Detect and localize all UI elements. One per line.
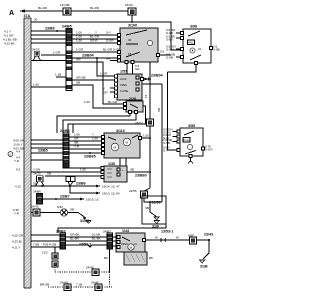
svg-text:BK: BK [104, 256, 108, 260]
svg-text:23/B60: 23/B60 [135, 174, 147, 178]
svg-text:23/B04: 23/B04 [82, 54, 94, 58]
svg-text:19/15, 15: 19/15, 15 [86, 198, 99, 202]
wire W from 1/44 to fuse 4/5F [146, 239, 190, 241]
wire 2/28 pin 2 to 24/B8 [63, 114, 136, 134]
wire branch to 3/100 pin 30 [158, 54, 171, 56]
svg-text:24/55: 24/55 [129, 189, 137, 193]
switch 2/28 [124, 97, 144, 114]
connector pair inline on W wire [161, 238, 166, 242]
wire BL-GN to 3/100 pin [72, 38, 120, 40]
svg-text:31/F: 31/F [152, 225, 160, 229]
wire W to node 23/43 [197, 239, 210, 241]
svg-text:BL-GR: BL-GR [103, 48, 113, 52]
wire 4.11 Y-SB row [31, 246, 60, 248]
wire 9.2 Y-GN to 1/35 [31, 171, 101, 173]
svg-text:15: 15 [128, 52, 132, 56]
svg-text:19/14, 15, 47: 19/14, 15, 47 [102, 185, 120, 189]
wire to 3/110 pin 1 [69, 136, 101, 138]
svg-text:23/B04: 23/B04 [151, 74, 163, 78]
wire branch row to 19/13 [70, 186, 100, 193]
svg-text:SB: SB [76, 81, 80, 85]
svg-text:S-BK: S-BK [166, 37, 173, 41]
wire 1/57 to SB vertical [142, 83, 162, 85]
svg-text:14/10B: 14/10B [60, 3, 70, 7]
svg-text:7.1B: 7.1B [76, 283, 82, 287]
svg-text:13/53-2: 13/53-2 [79, 243, 91, 247]
connector column 24/B8 [60, 129, 70, 168]
wire 4.12 BK row [31, 42, 66, 44]
svg-text:SB: SB [70, 208, 74, 212]
svg-text:15: 15 [144, 94, 148, 98]
wire bar to drop [31, 246, 55, 248]
wire 1.06 bottom row to 24/B5 [31, 86, 66, 88]
svg-text:Y-R: Y-R [14, 159, 20, 163]
svg-text:CLOSE: CLOSE [120, 90, 129, 93]
wire 4.03 SB row [31, 147, 63, 149]
svg-text:1.06: 1.06 [92, 137, 98, 141]
wire 4.1 Y row / node 23/B9 [31, 30, 66, 32]
svg-text:4.12: 4.12 [15, 185, 21, 189]
svg-text:+: + [122, 168, 124, 172]
wire node 23/B04 with branch to 1/57 [72, 58, 150, 79]
wire 4.25 GR-BK row [31, 234, 60, 236]
svg-text:1.05: 1.05 [143, 134, 149, 138]
node C section marker [8, 152, 13, 157]
svg-text:W: W [155, 236, 158, 240]
wire dashed BR-SB row with fuse 24/4G [48, 286, 64, 288]
wire 5.06 Y row [31, 143, 63, 145]
svg-text:1.06: 1.06 [33, 83, 39, 87]
wire 3/100 bottom pins to 1/57 [127, 64, 133, 75]
wire Y to 3/100 pin [72, 34, 120, 36]
wire stub GR to 1/57 [110, 91, 115, 93]
svg-text:3/55: 3/55 [188, 124, 195, 128]
svg-text:30: 30 [128, 38, 132, 42]
wire GR-W to 2/28 lower pin [72, 85, 123, 108]
wire dashed row 7.1B [71, 286, 95, 288]
connector 24/52 inline [147, 119, 154, 126]
svg-text:23/B7: 23/B7 [60, 195, 70, 199]
svg-text:24/B5: 24/B5 [62, 25, 72, 29]
svg-text:1/35: 1/35 [108, 162, 115, 166]
diode D1 output wire of 1/57 [144, 78, 151, 80]
svg-text:1/57: 1/57 [120, 70, 127, 74]
svg-text:23/B5: 23/B5 [38, 149, 48, 153]
svg-text:SB: SB [47, 172, 51, 176]
wire dashed drop to row 24/4E [54, 267, 56, 272]
harness bar 37A [24, 14, 32, 288]
svg-text:19/13, 15, 54: 19/13, 15, 54 [102, 192, 120, 196]
svg-text:S-GN: S-GN [166, 47, 174, 51]
wire SB from pump 6/32 [68, 212, 78, 214]
wire BL-GR to 3/100 pin [72, 51, 120, 53]
svg-text:31/55: 31/55 [152, 201, 161, 205]
wire to 3/110 pin 4 [69, 148, 101, 150]
wire 2/28 right pin to 24/B8 [68, 106, 146, 133]
svg-text:S-GN: S-GN [205, 148, 213, 152]
svg-text:SB: SB [145, 206, 149, 210]
svg-text:31/B: 31/B [200, 265, 208, 269]
svg-text:1-GR: 1-GR [76, 48, 84, 52]
svg-text:1-GR: 1-GR [53, 51, 61, 55]
svg-text:1/44: 1/44 [122, 229, 129, 233]
svg-text:1.06: 1.06 [84, 100, 90, 104]
svg-text:6/32: 6/32 [57, 205, 63, 209]
wire BL-RD with arrow to node A [20, 10, 129, 12]
svg-text:4.11 Y: 4.11 Y [12, 246, 20, 250]
svg-text:1.1B: 1.1B [55, 73, 61, 77]
wire dashed row after 24/4E [99, 271, 110, 273]
svg-text:S-SB: S-SB [166, 55, 173, 59]
wire 1/35 to node 23/B60 [127, 171, 150, 173]
wire BK drop from 24/B7 [109, 249, 111, 272]
svg-text:BL-BK: BL-BK [92, 237, 101, 241]
wire dashed row after 24/4F [102, 286, 112, 288]
wire 1-GR to 24/B5 [41, 54, 66, 56]
svg-text:24/B8: 24/B8 [60, 129, 70, 133]
svg-text:OPEN: OPEN [121, 243, 128, 246]
svg-text:C: C [9, 152, 11, 156]
svg-text:24/B6: 24/B6 [33, 190, 41, 194]
svg-text:1.06: 1.06 [80, 168, 86, 172]
lock motor unit 1/44 [116, 229, 153, 265]
svg-text:15/3C: 15/3C [125, 3, 134, 7]
wire 4.4 Y-R row node 23/B5 [31, 152, 63, 154]
svg-text:30: 30 [34, 18, 38, 22]
svg-text:BL-RD: BL-RD [38, 6, 48, 10]
node 23/B04 junction dot [149, 78, 151, 80]
wire stub Y to 1/57 [110, 87, 115, 89]
wire 4.4 Y-R lower row [31, 159, 63, 161]
svg-text:SB: SB [130, 168, 134, 172]
svg-text:CL: CL [198, 47, 202, 51]
wire stub into 24/B8 [72, 124, 74, 133]
svg-text:9.2: 9.2 [16, 168, 21, 172]
svg-text:LOCK: LOCK [120, 78, 127, 81]
ground 31/B [200, 260, 205, 263]
wire to 3/110 pin 2 [69, 140, 101, 142]
wire vertical net 15 [149, 79, 151, 188]
wire enclosure line y228 [58, 196, 166, 233]
wire diagonal to ground 31/08 [78, 213, 86, 219]
wire 24/B7 to 1/44 pins [113, 237, 118, 246]
svg-text:SB: SB [157, 108, 161, 112]
wire down with switch blade to ground 31/B [203, 241, 209, 259]
wire 4.23 BL-BR row [31, 240, 60, 242]
svg-text:1-GR: 1-GR [100, 72, 108, 76]
wire node 23/B65 to 3/110 pin 5 [69, 152, 101, 154]
wire 30 feed [31, 22, 183, 50]
svg-text:3/110: 3/110 [116, 129, 125, 133]
motor unit 3/110 [102, 129, 142, 158]
svg-text:S-SB: S-SB [163, 141, 170, 145]
svg-text:S-Y: S-Y [163, 149, 168, 153]
svg-text:3/98: 3/98 [190, 25, 197, 29]
svg-text:1.06: 1.06 [76, 39, 82, 43]
relay 3/55 [163, 124, 213, 158]
svg-text:BL-GR: BL-GR [108, 100, 118, 104]
wire 3/98 bottom return [168, 63, 197, 72]
svg-text:HALL: HALL [184, 139, 191, 142]
svg-text:23/B65: 23/B65 [84, 155, 96, 159]
wire with V splice to 24/B7 [66, 245, 108, 247]
svg-text:13/53-1: 13/53-1 [161, 230, 173, 234]
connector half on 3/55 stub [189, 162, 193, 164]
wire GR-R to 3/100 pin [72, 42, 120, 44]
wire drop to connector 11/2 [54, 247, 56, 253]
wire 3/110 bottom pins to 1/35 [120, 158, 126, 166]
svg-text:W: W [176, 236, 179, 240]
svg-text:0.5: 0.5 [160, 50, 165, 54]
wire 4.05 GR row [31, 139, 63, 141]
wire 0.35 Y-R row / fuse 24/4C [31, 212, 60, 214]
wire 2/28 pin 1 to 24/B8 [57, 114, 130, 134]
svg-text:P-SB: P-SB [49, 243, 56, 247]
wire feed down to 3/55 [168, 72, 178, 150]
svg-text:S-GR: S-GR [106, 39, 114, 43]
wire from bar under 24/3C [31, 60, 66, 62]
wire dashed row with fuse 24/4E [55, 271, 92, 273]
svg-text:Y-R: Y-R [74, 145, 80, 149]
svg-text:OPEN: OPEN [120, 84, 127, 87]
svg-text:Y-R: Y-R [14, 211, 20, 215]
svg-text:HALL: HALL [188, 42, 195, 45]
wire 3/55 bottom stub [190, 158, 192, 163]
ground plate 31/55 with switch and ground 31/F [142, 196, 166, 229]
wire 3/110 to vertical junction [142, 137, 151, 139]
wire 24/B8 to 1/35 [69, 167, 101, 169]
node 23/43 junction dot [208, 239, 210, 241]
svg-text:BL-BR: BL-BR [70, 237, 80, 241]
wire stub GR to 3/100 pin [110, 60, 118, 62]
svg-text:A: A [9, 10, 14, 17]
connector 24/55 inline [144, 188, 162, 202]
svg-text:37A: 37A [24, 14, 31, 18]
wire GR to switch 2/28 [72, 62, 123, 104]
svg-text:4.25 GR: 4.25 GR [12, 234, 24, 238]
svg-text:BR-SB: BR-SB [40, 283, 49, 287]
wire BL-BR 24/B2 to 24/B7 [66, 240, 108, 242]
svg-text:23/B9: 23/B9 [45, 27, 55, 31]
svg-text:GR-SB: GR-SB [76, 76, 86, 80]
svg-text:3/100: 3/100 [128, 24, 137, 28]
svg-text:24/52: 24/52 [135, 121, 143, 125]
svg-text:23/B6: 23/B6 [76, 182, 86, 186]
svg-text:4.12 BK: 4.12 BK [4, 42, 15, 46]
svg-text:23/43: 23/43 [204, 233, 213, 237]
control unit 1/35 [101, 162, 127, 182]
svg-text:24/3C: 24/3C [33, 172, 42, 176]
wire row node 23/B7 [43, 198, 85, 200]
svg-text:2/28: 2/28 [129, 97, 136, 101]
svg-text:11/2: 11/2 [42, 251, 48, 255]
wire GR-BK 24/B2 to 24/B7 [66, 236, 108, 238]
svg-text:S-Y: S-Y [106, 31, 111, 35]
svg-text:GR-R: GR-R [90, 39, 98, 43]
wire vertical SB return [161, 84, 163, 202]
wire GR-SB to 1/57 [72, 79, 114, 81]
wire 4.1 BL-SB row [31, 38, 66, 40]
svg-text:BK: BK [149, 256, 153, 260]
wire 4.12 SB row / node 23/B6 to 19/14 [31, 185, 100, 187]
svg-text:7.5B: 7.5B [33, 243, 39, 247]
relay 3/100 [118, 24, 165, 64]
svg-text:BL-RD: BL-RD [90, 6, 100, 10]
wire to 3/110 pin 3 [69, 144, 101, 146]
svg-text:24/4C: 24/4C [31, 205, 40, 209]
wire SB to 1/35 [45, 175, 101, 177]
svg-text:4.4: 4.4 [16, 150, 21, 154]
control unit 1/57 [115, 70, 144, 101]
svg-text:S-5B: S-5B [213, 48, 220, 52]
wire 4.1 GR row [31, 34, 66, 36]
svg-text:P25: P25 [43, 243, 49, 247]
relay 3/98 [166, 25, 220, 65]
svg-text:4.23 BL: 4.23 BL [12, 240, 23, 244]
wire 1.1B stub to 24/B5 [56, 76, 66, 78]
